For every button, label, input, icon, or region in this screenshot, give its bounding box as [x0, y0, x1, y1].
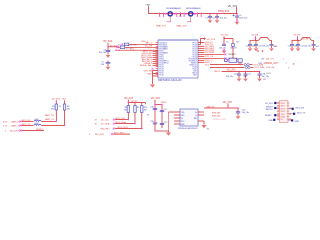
- svg-text:C14 104_16v: C14 104_16v: [258, 45, 269, 47]
- svg-text:n_RUN: n_RUN: [264, 73, 271, 75]
- svg-text:UART_TX: UART_TX: [45, 118, 55, 121]
- svg-text:XL_32K: XL_32K: [145, 46, 153, 48]
- svg-text:IMU_INT1: IMU_INT1: [101, 129, 111, 131]
- svg-text:VD_3V3: VD_3V3: [265, 103, 273, 105]
- svg-text:UART_RX: UART_RX: [45, 114, 55, 117]
- svg-text:2: 2: [286, 63, 288, 65]
- svg-text:RXD0: RXD0: [281, 111, 285, 113]
- svg-text:R2: R2: [236, 41, 238, 43]
- svg-text:C3: C3: [206, 17, 208, 19]
- svg-text:A1: A1: [293, 63, 296, 66]
- svg-text:VD_RF: VD_RF: [294, 34, 302, 36]
- svg-text:R20 10K: R20 10K: [212, 115, 221, 117]
- svg-text:MCU_RST: MCU_RST: [10, 131, 20, 133]
- svg-text:C4: C4: [212, 17, 214, 19]
- svg-text:VD_3V3: VD_3V3: [207, 39, 216, 41]
- svg-text:10K_5%: 10K_5%: [266, 59, 274, 61]
- svg-text:4K7: 4K7: [144, 110, 147, 112]
- svg-text:IMU_INT2: IMU_INT2: [95, 134, 105, 136]
- svg-text:FB1 BLM18AG601: FB1 BLM18AG601: [166, 7, 181, 10]
- svg-text:104: 104: [244, 76, 247, 78]
- svg-text:VD_3V3: VD_3V3: [103, 40, 113, 43]
- svg-text:FB2 BLM18AG601: FB2 BLM18AG601: [186, 7, 201, 10]
- svg-text:10uF_16v: 10uF_16v: [239, 18, 247, 20]
- svg-text:C15: C15: [274, 46, 277, 48]
- svg-text:SWDIO: SWDIO: [228, 54, 236, 56]
- svg-text:MCU_RX: MCU_RX: [296, 107, 305, 109]
- svg-text:C23 12p: C23 12p: [266, 67, 275, 69]
- svg-text:SWIO: SWIO: [281, 106, 286, 108]
- svg-text:104_16v: 104_16v: [99, 52, 106, 54]
- svg-text:MCU_TX: MCU_TX: [297, 112, 306, 114]
- svg-text:C16: C16: [150, 107, 153, 109]
- svg-text:VD_3V3: VD_3V3: [223, 101, 233, 104]
- svg-text:R19 10K: R19 10K: [212, 112, 221, 114]
- svg-text:4K7: 4K7: [67, 108, 70, 110]
- svg-text:XC1: XC1: [205, 64, 210, 66]
- svg-text:V3: V3: [181, 118, 183, 120]
- svg-text:GND0: GND0: [281, 117, 286, 119]
- svg-text:XC2_32M: XC2_32M: [255, 67, 265, 69]
- svg-text:1%: 1%: [147, 115, 150, 117]
- svg-text:C6: C6: [226, 41, 228, 43]
- svg-text:104: 104: [252, 45, 255, 47]
- svg-text:I2C_SDA: I2C_SDA: [101, 123, 110, 126]
- svg-text:TXD0: TXD0: [281, 114, 285, 116]
- svg-text:22R_5%: 22R_5%: [130, 45, 137, 47]
- svg-text:29: 29: [95, 120, 98, 122]
- svg-text:PWR_3V3: PWR_3V3: [218, 10, 230, 13]
- svg-text:D+: D+: [195, 112, 197, 114]
- svg-text:NFC_2: NFC_2: [146, 43, 153, 45]
- svg-text:R5: R5: [262, 59, 265, 61]
- svg-text:C14 104_16v: C14 104_16v: [300, 45, 311, 47]
- svg-text:VD_3V3: VD_3V3: [227, 69, 237, 72]
- svg-text:USB_5V: USB_5V: [206, 106, 215, 108]
- svg-text:C11: C11: [248, 74, 251, 76]
- svg-text:NRF52832-QFAA-R0: NRF52832-QFAA-R0: [158, 79, 182, 82]
- svg-text:P0.16: P0.16: [159, 74, 163, 76]
- svg-text:UART_TX: UART_TX: [11, 125, 21, 128]
- svg-text:VD5: VD5: [62, 98, 67, 100]
- svg-text:GND: GND: [147, 74, 152, 76]
- svg-text:VD_PA: VD_PA: [252, 33, 259, 36]
- svg-text:104_16v: 104_16v: [220, 17, 227, 19]
- svg-text:P22_CS: P22_CS: [205, 56, 214, 58]
- svg-text:C18: C18: [150, 121, 153, 123]
- svg-text:104_16v: 104_16v: [219, 48, 226, 50]
- svg-text:1: 1: [283, 59, 285, 61]
- svg-text:C19: C19: [164, 122, 167, 124]
- svg-text:6: 6: [89, 134, 91, 136]
- svg-text:DEC4: DEC4: [214, 71, 221, 73]
- svg-text:104: 104: [316, 46, 319, 48]
- svg-text:104_16v: 104_16v: [226, 76, 233, 78]
- svg-text:RST: RST: [194, 118, 197, 120]
- svg-text:3 TX: 3 TX: [3, 126, 8, 128]
- svg-text:2450FM_ANT: 2450FM_ANT: [264, 62, 279, 65]
- svg-text:C17: C17: [164, 109, 167, 111]
- svg-text:UART_RX: UART_RX: [11, 121, 21, 124]
- svg-text:5%: 5%: [59, 106, 62, 108]
- svg-text:30: 30: [95, 124, 98, 126]
- svg-text:C13: C13: [246, 45, 249, 47]
- svg-text:I2C_SCL: I2C_SCL: [101, 120, 110, 122]
- svg-text:MODE_SEL: MODE_SEL: [140, 65, 153, 67]
- svg-text:10K_5%: 10K_5%: [230, 48, 237, 50]
- svg-text:B1: B1: [264, 79, 266, 81]
- svg-text:VD_RF: VD_RF: [302, 38, 309, 40]
- svg-text:SWCLK: SWCLK: [265, 109, 273, 111]
- svg-text:XL_1: XL_1: [130, 49, 134, 51]
- svg-text:B0505S-1WR2: B0505S-1WR2: [213, 119, 227, 121]
- svg-text:1uF_16v: 1uF_16v: [262, 76, 269, 78]
- svg-text:104_16v: 104_16v: [242, 112, 249, 114]
- svg-text:VD33: VD33: [281, 103, 285, 105]
- svg-text:C10: C10: [234, 74, 237, 76]
- svg-text:104: 104: [101, 64, 104, 66]
- svg-text:VBAT_FLT: VBAT_FLT: [156, 25, 167, 28]
- svg-text:VBUS: VBUS: [161, 102, 167, 104]
- svg-text:104: 104: [294, 45, 297, 47]
- svg-text:VSS_PA: VSS_PA: [143, 70, 152, 73]
- svg-text:VD_3V3: VD_3V3: [228, 5, 238, 8]
- svg-text:G1: G1: [207, 129, 210, 131]
- svg-text:2 RX: 2 RX: [3, 122, 8, 124]
- svg-text:P20_BTN2: P20_BTN2: [205, 52, 215, 54]
- svg-text:VD_3V3: VD_3V3: [52, 98, 61, 100]
- svg-text:R9: R9: [137, 107, 139, 109]
- svg-text:VD_3V3: VD_3V3: [151, 97, 161, 100]
- svg-text:GND: GND: [269, 120, 274, 122]
- svg-text:VBAT_3V3: VBAT_3V3: [176, 25, 187, 28]
- svg-text:2: 2: [288, 67, 290, 69]
- svg-text:TP4056-42-ESOP8-V2: TP4056-42-ESOP8-V2: [178, 128, 199, 130]
- svg-text:5: 5: [5, 131, 7, 133]
- svg-text:VD_3V3: VD_3V3: [124, 97, 134, 100]
- svg-text:GND: GND: [295, 121, 300, 123]
- svg-text:C13: C13: [288, 45, 291, 47]
- svg-text:RESET: RESET: [36, 129, 44, 131]
- svg-text:4K7: 4K7: [51, 108, 54, 110]
- svg-text:4K7: 4K7: [124, 110, 127, 112]
- svg-text:RESET: RESET: [265, 115, 272, 117]
- svg-text:VD_3V3: VD_3V3: [221, 34, 230, 36]
